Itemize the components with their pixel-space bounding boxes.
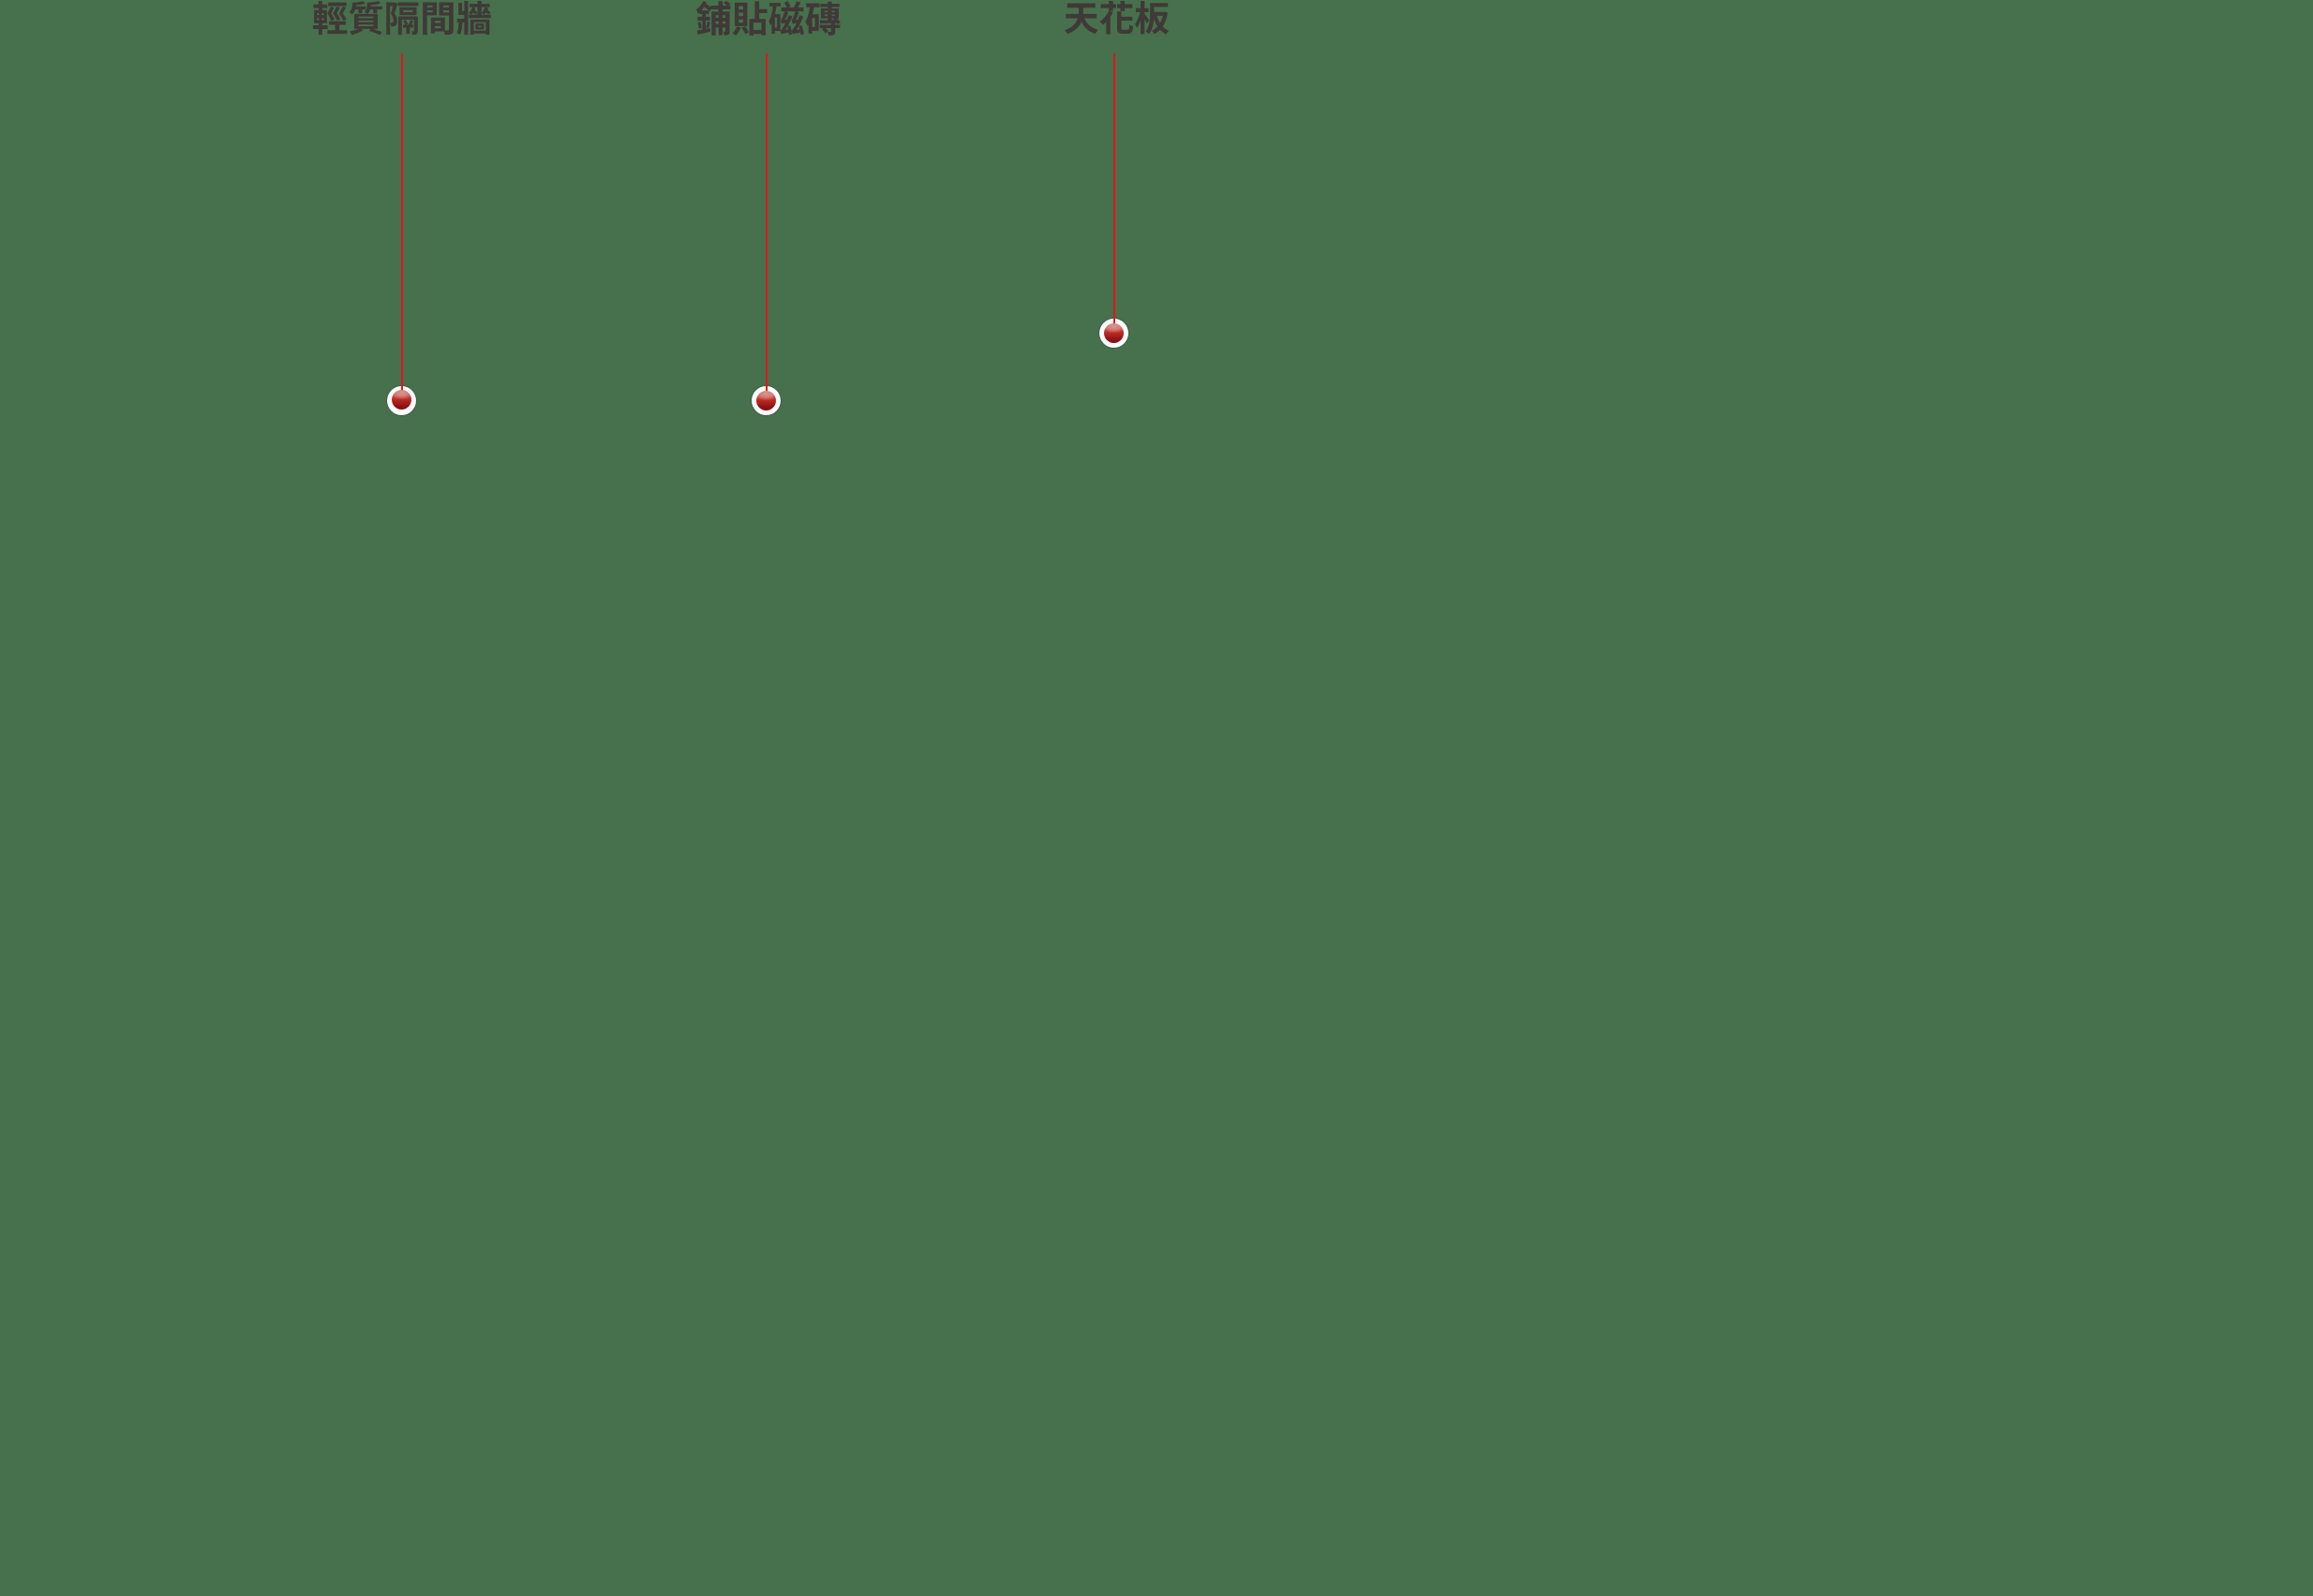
marker red ball for 輕質隔間牆 (392, 390, 411, 410)
marker white ring for 天花板 (1099, 319, 1128, 348)
marker white ring for 鋪貼磁磚 (752, 386, 781, 415)
marker red ball for 天花板 (1104, 323, 1124, 343)
marker red ball for 鋪貼磁磚 (756, 391, 776, 410)
label 天花板 (ceiling) (1063, 0, 1171, 37)
leader line for 輕質隔間牆 (401, 53, 403, 391)
leader line for 天花板 (1113, 53, 1115, 324)
leader line for 鋪貼磁磚 (766, 53, 768, 391)
label 鋪貼磁磚 (tile laying) (694, 0, 843, 37)
label 輕質隔間牆 (lightweight partition wall) (311, 0, 493, 37)
marker white ring for 輕質隔間牆 (387, 386, 416, 415)
